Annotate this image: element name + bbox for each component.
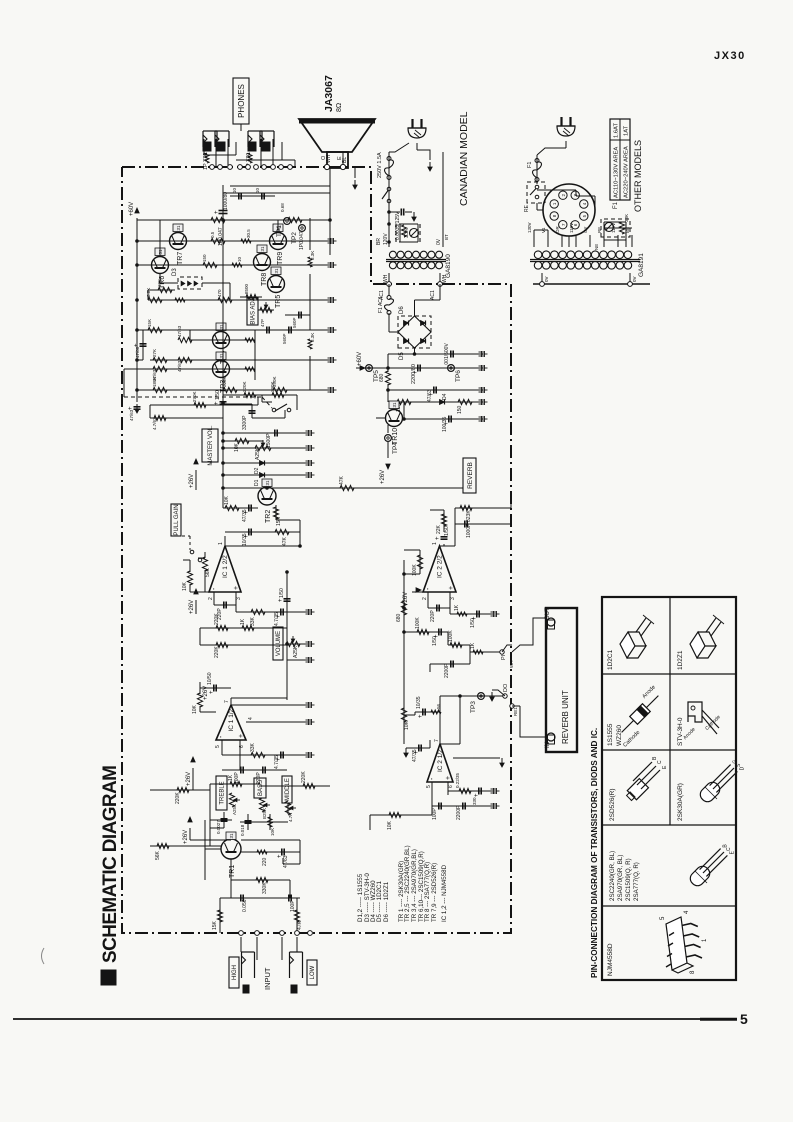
svg-text:TP6: TP6 (455, 370, 462, 382)
ic21 fb (431, 782, 433, 795)
other models switch box (527, 182, 545, 203)
svg-text:STV-3H-0: STV-3H-0 (677, 717, 684, 746)
master switch (272, 408, 276, 412)
svg-text:1S1555: 1S1555 (607, 723, 614, 746)
svg-text:1K: 1K (470, 642, 476, 649)
ic21 pin4 gnd (453, 757, 500, 759)
svg-text:47/80: 47/80 (135, 346, 140, 358)
wire 390 47/63 (388, 389, 483, 391)
svg-text:WH: WH (509, 661, 514, 669)
svg-text:220K: 220K (301, 771, 307, 783)
svg-text:10K: 10K (157, 279, 162, 287)
svg-text:AC110~130V AREA: AC110~130V AREA (614, 147, 620, 198)
svg-text:120V: 120V (383, 233, 389, 245)
svg-text:A25K: A25K (255, 447, 261, 460)
svg-text:31: 31 (274, 268, 279, 274)
res 10K ic21 (401, 708, 406, 722)
svg-text:RE: RE (597, 227, 602, 233)
wire y300 bias (148, 299, 240, 301)
reverb send wire (223, 487, 463, 489)
svg-text:5: 5 (215, 745, 221, 748)
op-amp IC1 2/2 (209, 546, 241, 592)
svg-text:0.0027: 0.0027 (216, 820, 221, 834)
svg-text:TP2: TP2 (291, 232, 298, 244)
svg-text:+60V: +60V (129, 202, 135, 216)
svg-text:1D2C1: 1D2C1 (607, 649, 614, 670)
svg-text:1K: 1K (228, 774, 234, 781)
cap 2200P pi (450, 661, 452, 668)
footer rule (13, 1018, 737, 1020)
svg-text:1: 1 (432, 542, 438, 545)
caps 47P 560P (266, 327, 268, 334)
canadian main chain (388, 152, 390, 247)
cap 3300P (251, 404, 253, 418)
svg-text:+: + (209, 690, 215, 694)
MIDDLE (282, 776, 292, 803)
svg-text:MASTER VOL.: MASTER VOL. (208, 425, 214, 466)
svg-text:0V: 0V (632, 276, 637, 282)
res 10K ic11 (199, 682, 201, 694)
svg-text:D6 ----- 1D2Z1: D6 ----- 1D2Z1 (383, 881, 390, 922)
rail junctions (136, 240, 139, 243)
svg-text:823K: 823K (466, 510, 472, 522)
svg-text:7: 7 (434, 739, 440, 742)
svg-text:A25K: A25K (232, 804, 237, 815)
res 823K 1000P (455, 507, 511, 509)
svg-text:1000/80: 1000/80 (223, 192, 229, 210)
PULL GAIN label (171, 504, 181, 536)
svg-text:1000P: 1000P (466, 523, 472, 538)
wire y390 (137, 389, 310, 391)
svg-text:5: 5 (426, 785, 432, 788)
svg-text:8Ω: 8Ω (336, 103, 343, 112)
+26V ic12 (194, 589, 198, 594)
svg-text:100P: 100P (290, 900, 296, 912)
cap 47/35 ic21 (418, 745, 420, 752)
svg-text:220K: 220K (214, 646, 220, 658)
svg-text:150: 150 (457, 405, 463, 414)
TP5 (366, 365, 373, 372)
TR5 (268, 276, 285, 293)
fuse F1 secondary (388, 284, 390, 296)
bus x223 junctions (222, 402, 225, 405)
svg-text:2200P: 2200P (444, 663, 450, 678)
GA8191 primary taps (533, 235, 535, 247)
svg-text:+26V: +26V (183, 830, 189, 844)
svg-text:0.68: 0.68 (280, 203, 285, 212)
TP1 TP2 (284, 218, 291, 225)
svg-text:47/35: 47/35 (242, 509, 248, 522)
svg-text:10/35: 10/35 (416, 696, 422, 709)
reverb IN jack (547, 733, 555, 741)
svg-text:3.3K: 3.3K (310, 333, 315, 342)
svg-text:TR5: TR5 (275, 295, 282, 308)
GA8191 secondary bus (541, 273, 543, 284)
ic12 out wire (225, 545, 300, 547)
svg-text:TP4: TP4 (392, 442, 399, 454)
svg-text:+: + (134, 343, 140, 347)
LOW label (307, 960, 317, 985)
res 10K 47/35 pull (223, 507, 258, 509)
res row 220K 1K 220K tone (177, 787, 189, 792)
svg-text:IC 1 2/2: IC 1 2/2 (222, 555, 229, 578)
svg-text:TR1: TR1 (229, 865, 236, 878)
svg-text:30.5: 30.5 (246, 229, 251, 238)
canadian transformer GA8190 (389, 251, 396, 258)
svg-text:+: + (474, 793, 480, 797)
other models fuse F1 (536, 155, 538, 184)
svg-text:OTHER MODELS: OTHER MODELS (633, 140, 643, 212)
pin table grid (602, 905, 736, 907)
cap 10/35 56 ic21 (415, 711, 440, 713)
svg-text:F1: F1 (527, 162, 533, 168)
input jack high (242, 951, 255, 953)
svg-text:+60V: +60V (357, 352, 363, 366)
svg-text:10: 10 (232, 187, 237, 193)
svg-text:+26V: +26V (189, 600, 195, 614)
svg-text:IC 1 1/2: IC 1 1/2 (228, 708, 235, 731)
other models plug (557, 126, 575, 136)
svg-text:NJM4558D: NJM4558D (607, 943, 614, 976)
stray mark left edge (42, 948, 45, 964)
svg-text:1K: 1K (454, 604, 460, 611)
emitter column (309, 218, 311, 250)
svg-text:4: 4 (248, 717, 254, 720)
svg-text:33K: 33K (250, 742, 256, 752)
svg-text:3300P: 3300P (242, 415, 248, 430)
+60V rail wire (388, 353, 483, 355)
svg-text:250V 1.5A: 250V 1.5A (377, 152, 383, 178)
TREBLE (216, 776, 227, 810)
+26V tr1 (188, 817, 192, 822)
TR8 (254, 254, 271, 271)
svg-text:TR 2,5 --- 2SC2240(GR,BL): TR 2,5 --- 2SC2240(GR,BL) (404, 845, 411, 922)
wire 402 10K D4 150 (394, 401, 483, 403)
output pair wire (230, 185, 330, 187)
svg-text:560P: 560P (292, 317, 297, 328)
+60V rail left (136, 218, 138, 390)
bus x404 (403, 560, 405, 744)
svg-text:0.056: 0.056 (242, 899, 248, 912)
canadian fuse 250V 1.5A (385, 160, 394, 176)
cap 220P fb ic12 (213, 592, 215, 605)
caps 10 10 (238, 193, 240, 200)
svg-text:47K: 47K (297, 920, 303, 930)
HIGH label (229, 957, 239, 988)
res 15K 47K input (217, 910, 222, 922)
rectifier D5 D6 (dashed diamond) (398, 316, 431, 348)
input jack low (290, 951, 303, 953)
svg-text:2SC2240(GR, BL): 2SC2240(GR, BL) (609, 851, 616, 901)
svg-text:4.7/63: 4.7/63 (152, 417, 157, 430)
svg-text:TR 3,4 --- 2SA970(GR,BL): TR 3,4 --- 2SA970(GR,BL) (411, 849, 418, 922)
svg-text:2SA777(Q, R): 2SA777(Q, R) (633, 862, 640, 901)
svg-text:10K: 10K (387, 820, 393, 830)
speaker JA3067 (299, 119, 375, 152)
wire y330 (137, 329, 258, 331)
chassis border (dash-dot) (122, 167, 511, 933)
svg-text:56K: 56K (205, 567, 211, 577)
svg-text:10K: 10K (192, 704, 198, 714)
svg-text:22K: 22K (436, 524, 442, 534)
svg-text:15K: 15K (147, 319, 152, 327)
cap 1/50 master (220, 403, 227, 405)
svg-text:A25K: A25K (293, 645, 299, 658)
+26V pull (194, 459, 198, 464)
svg-text:47/63: 47/63 (177, 360, 182, 372)
svg-text:TREBLE: TREBLE (220, 781, 226, 804)
wire 419 100/35 (404, 418, 483, 420)
+26V down (387, 442, 389, 458)
svg-text:560P: 560P (282, 333, 287, 344)
reverb wires (520, 706, 546, 737)
svg-text:33K: 33K (624, 214, 629, 222)
svg-text:0V: 0V (544, 276, 549, 282)
op-amp IC2 2/2 (423, 546, 456, 592)
pin table outer (602, 597, 736, 980)
out bus x330 (329, 167, 331, 255)
svg-text:GY: GY (583, 226, 588, 233)
TR1 (221, 839, 241, 859)
svg-text:1/50: 1/50 (215, 390, 221, 400)
svg-text:DO: DO (503, 683, 509, 692)
svg-text:OR: OR (555, 225, 560, 233)
svg-text:31: 31 (176, 225, 181, 231)
svg-text:INPUT: INPUT (263, 967, 272, 990)
tone caps (221, 820, 228, 822)
svg-text:TR9: TR9 (277, 252, 284, 265)
bus x287 (286, 572, 288, 700)
svg-text:47P: 47P (260, 319, 265, 327)
svg-text:10: 10 (255, 187, 260, 193)
op-amp IC2 1/2 (427, 744, 453, 782)
wire y265 (137, 264, 253, 266)
TP6 (448, 365, 455, 372)
TP4 (385, 435, 392, 442)
svg-text:1.6AT: 1.6AT (614, 123, 620, 138)
svg-text:330: 330 (472, 797, 477, 805)
ic21 out wire (440, 743, 460, 745)
TR10 (386, 410, 403, 427)
cap 10/35 47K (225, 531, 300, 533)
svg-text:4.7/35: 4.7/35 (274, 612, 280, 626)
res 680 ic22 (401, 601, 406, 615)
svg-text:BIAS ADJ: BIAS ADJ (251, 298, 257, 324)
svg-text:CANADIAN MODEL: CANADIAN MODEL (458, 111, 470, 206)
svg-text:1AT: 1AT (624, 125, 630, 136)
svg-text:2SC1509(Q, R): 2SC1509(Q, R) (625, 858, 632, 901)
cap 560P wire (298, 312, 300, 319)
svg-text:+: + (233, 586, 240, 590)
svg-text:LOW: LOW (310, 965, 316, 979)
svg-text:2SA970(GR, BL): 2SA970(GR, BL) (617, 855, 624, 901)
svg-text:4.7/35: 4.7/35 (274, 755, 280, 769)
jack wires (215, 139, 217, 167)
svg-text:BASS: BASS (258, 780, 264, 796)
diode D1 (223, 474, 308, 476)
svg-text:BT: BT (444, 234, 449, 240)
tone bus (209, 784, 211, 846)
svg-text:15K: 15K (212, 920, 218, 930)
res 10K ic12 (189, 560, 191, 572)
+26V ic22 (416, 588, 421, 592)
svg-text:150: 150 (202, 254, 207, 262)
res 33K 47/35 ic12 (251, 609, 265, 614)
res 220K 1K 220K ic12 (216, 625, 228, 630)
svg-text:390K: 390K (270, 381, 275, 392)
res 100K ic22 (419, 550, 421, 574)
svg-text:0V: 0V (436, 238, 442, 245)
svg-text:BL: BL (342, 157, 348, 163)
svg-text:3: 3 (450, 597, 456, 600)
svg-text:2200P: 2200P (456, 805, 462, 820)
svg-text:BR: BR (376, 238, 382, 245)
svg-text:47/35: 47/35 (412, 749, 418, 762)
res 1P0.047 pair (211, 217, 225, 222)
svg-text:TP3: TP3 (470, 701, 477, 713)
TR9 (270, 233, 287, 250)
svg-text:47/63: 47/63 (177, 325, 182, 337)
bridge output (414, 348, 416, 354)
ic22 fb (427, 598, 429, 608)
svg-text:+: + (435, 536, 441, 540)
svg-text:47K: 47K (282, 536, 288, 546)
BIAS ADJ (247, 298, 258, 325)
svg-text:WZ260: WZ260 (616, 725, 623, 746)
svg-text:G: G (733, 760, 739, 764)
diode D2 (223, 462, 308, 464)
svg-text:F1 AC1: F1 AC1 (378, 296, 384, 313)
wire y241 (137, 240, 269, 242)
svg-text:220: 220 (262, 857, 268, 866)
svg-text:TR 8 --- 2SA777(Q,R): TR 8 --- 2SA777(Q,R) (424, 862, 431, 922)
svg-text:+26V: +26V (380, 470, 386, 484)
svg-text:10/35: 10/35 (242, 533, 248, 546)
svg-text:PHONES: PHONES (237, 84, 246, 118)
svg-text:GA8191: GA8191 (638, 253, 645, 277)
REVERB boxed label (463, 458, 476, 493)
svg-text:0.018: 0.018 (240, 824, 245, 836)
svg-text:1: 1 (218, 542, 224, 545)
svg-text:RE1: RE1 (513, 707, 518, 716)
svg-text:D6: D6 (399, 306, 405, 314)
svg-text:220K: 220K (175, 792, 181, 804)
svg-text:+26V: +26V (189, 474, 195, 488)
canadian cap 0.0033/125V (389, 211, 400, 213)
svg-text:GA8190: GA8190 (445, 254, 452, 278)
phones jack 1 (203, 130, 217, 132)
svg-text:HIGH: HIGH (232, 965, 238, 980)
svg-text:47/63: 47/63 (283, 855, 289, 868)
TR6 (152, 257, 169, 274)
svg-text:220P: 220P (430, 610, 436, 622)
svg-text:5: 5 (740, 1011, 748, 1027)
svg-text:1/50: 1/50 (444, 526, 450, 536)
svg-text:1D2Z1: 1D2Z1 (677, 650, 684, 670)
svg-text:D1: D1 (254, 479, 260, 486)
svg-text:2: 2 (422, 597, 428, 600)
res 10K masterline (223, 440, 263, 442)
svg-text:47/63: 47/63 (129, 409, 134, 421)
svg-text:IC 1,2 --- NJM4558D: IC 1,2 --- NJM4558D (441, 864, 448, 922)
svg-text:100P: 100P (432, 808, 438, 820)
svg-text:1/50: 1/50 (432, 636, 438, 646)
svg-text:27K: 27K (152, 349, 157, 357)
res 10K fb ic21 (389, 812, 401, 817)
+26V tone (191, 757, 195, 762)
ic11 fb caps (221, 740, 223, 755)
reverb unit box (546, 608, 577, 752)
svg-text:D5 ----- 1D2C1: D5 ----- 1D2C1 (376, 881, 383, 922)
svg-text:JA3067: JA3067 (323, 75, 335, 112)
svg-text:+26V: +26V (186, 772, 192, 786)
svg-text:31: 31 (392, 402, 397, 408)
cap 2200/80 (417, 365, 419, 372)
svg-text:15K: 15K (276, 516, 282, 526)
svg-text:100K: 100K (415, 617, 421, 629)
svg-text:47/63: 47/63 (152, 369, 157, 381)
svg-text:D5: D5 (399, 352, 405, 360)
res 8500 (246, 294, 258, 299)
TR3 (213, 361, 230, 378)
svg-text:31: 31 (229, 833, 234, 839)
svg-text:TP1: TP1 (276, 225, 283, 237)
svg-text:31: 31 (265, 480, 270, 486)
svg-text:680: 680 (379, 373, 385, 382)
PHONES boxed label (233, 78, 249, 124)
svg-text:56K: 56K (155, 850, 161, 860)
svg-text:+: + (214, 401, 220, 405)
svg-text:330K: 330K (262, 882, 268, 894)
canadian lamp box (dashed) (396, 224, 420, 242)
svg-text:SCHEMATIC DIAGRAM: SCHEMATIC DIAGRAM (100, 766, 121, 963)
svg-text:10: 10 (237, 256, 242, 262)
cap 1500P (223, 432, 308, 434)
svg-text:AC220~240V AREA: AC220~240V AREA (624, 146, 630, 198)
mid rail x223 (222, 185, 224, 508)
svg-text:IC 2 2/2: IC 2 2/2 (437, 555, 444, 578)
svg-text:IN: IN (545, 742, 551, 748)
MASTER VOL (202, 429, 218, 462)
svg-text:2200/80: 2200/80 (411, 364, 417, 384)
cap 1000/80 (219, 213, 228, 215)
svg-text:D3: D3 (172, 268, 178, 276)
TR7 (170, 233, 187, 250)
svg-text:7: 7 (224, 700, 230, 703)
TR4 (213, 332, 230, 349)
svg-text:TR 7,9 --- 2SD526(R): TR 7,9 --- 2SD526(R) (431, 863, 438, 922)
op-amp IC1 1/2 (216, 705, 246, 740)
svg-text:+: + (128, 406, 134, 410)
res 15K TR2 (273, 507, 278, 519)
res 270K (194, 402, 206, 407)
res 56K pull (204, 552, 206, 558)
svg-text:NE: NE (594, 244, 599, 250)
cap 10/50 (213, 685, 215, 692)
BASS (254, 778, 266, 798)
svg-text:680: 680 (396, 613, 402, 622)
svg-text:1/50: 1/50 (279, 588, 285, 598)
res 100K 100K ic2 (417, 629, 429, 634)
caps 0.056 100P (240, 895, 242, 902)
svg-text:31: 31 (260, 246, 265, 252)
svg-text:+26V: +26V (203, 686, 209, 700)
svg-text:3.3K: 3.3K (310, 251, 315, 260)
master dashed link (124, 396, 262, 398)
svg-text:10/50: 10/50 (207, 672, 213, 685)
svg-text:10K: 10K (182, 581, 188, 591)
res 680 psu (385, 371, 390, 385)
